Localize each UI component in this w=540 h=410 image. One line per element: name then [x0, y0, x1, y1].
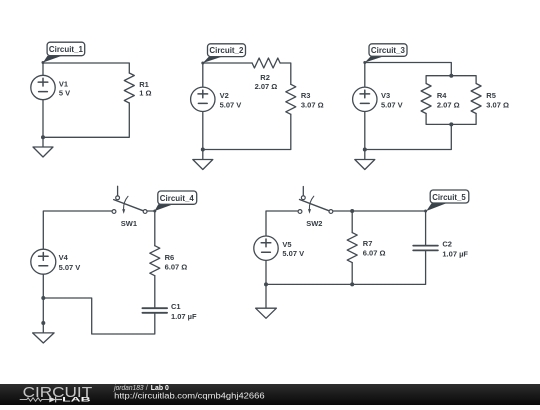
svg-text:3.07 Ω: 3.07 Ω: [301, 100, 324, 109]
svg-text:http://circuitlab.com/cqmb4ghj: http://circuitlab.com/cqmb4ghj42666: [114, 391, 265, 400]
svg-text:Circuit_4: Circuit_4: [160, 194, 195, 203]
svg-text:LAB: LAB: [62, 397, 91, 404]
svg-text:R3: R3: [301, 91, 311, 100]
svg-text:5.07 V: 5.07 V: [381, 100, 403, 109]
svg-text:Circuit_5: Circuit_5: [432, 193, 466, 202]
svg-text:R6: R6: [165, 253, 175, 262]
svg-text:3.07 Ω: 3.07 Ω: [486, 101, 509, 110]
svg-text:R2: R2: [260, 73, 270, 82]
svg-text:5 V: 5 V: [59, 89, 70, 98]
svg-text:V3: V3: [381, 91, 390, 100]
svg-text:SW1: SW1: [121, 219, 137, 228]
svg-text:5.07 V: 5.07 V: [220, 100, 242, 109]
svg-text:2.07 Ω: 2.07 Ω: [255, 82, 278, 91]
svg-text:5.07 V: 5.07 V: [282, 249, 304, 258]
svg-text:Circuit_3: Circuit_3: [371, 46, 406, 55]
svg-text:5.07 V: 5.07 V: [59, 263, 81, 272]
svg-text:Circuit_2: Circuit_2: [209, 46, 244, 55]
svg-text:1.07 µF: 1.07 µF: [442, 249, 468, 258]
svg-text:V1: V1: [59, 80, 68, 89]
svg-text:R5: R5: [486, 91, 496, 100]
svg-text:2.07 Ω: 2.07 Ω: [437, 101, 460, 110]
svg-text:V5: V5: [282, 240, 291, 249]
svg-text:R1: R1: [139, 80, 149, 89]
svg-text:R4: R4: [437, 91, 447, 100]
svg-text:6.07 Ω: 6.07 Ω: [363, 249, 386, 258]
svg-text:1.07 µF: 1.07 µF: [171, 312, 197, 321]
svg-text:Circuit_1: Circuit_1: [49, 45, 84, 54]
svg-text:1 Ω: 1 Ω: [139, 89, 151, 98]
svg-text:V2: V2: [220, 91, 229, 100]
svg-text:C1: C1: [171, 302, 181, 311]
svg-text:6.07 Ω: 6.07 Ω: [165, 262, 188, 271]
svg-text:C2: C2: [442, 239, 452, 248]
svg-text:R7: R7: [363, 239, 373, 248]
svg-text:V4: V4: [59, 253, 69, 262]
svg-text:SW2: SW2: [306, 219, 322, 228]
